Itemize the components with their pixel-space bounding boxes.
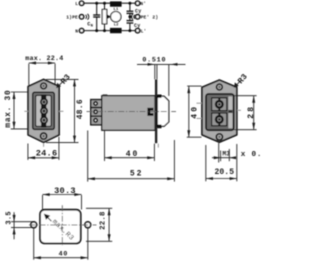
- svg-text:28: 28: [247, 105, 256, 119]
- svg-text:40: 40: [59, 250, 69, 257]
- svg-text:PE' 2): PE' 2): [141, 15, 159, 21]
- svg-text:max. 22.4: max. 22.4: [25, 55, 63, 63]
- svg-text:L': L': [141, 28, 147, 34]
- svg-text:48.6: 48.6: [77, 99, 85, 119]
- svg-text:20.5: 20.5: [215, 168, 235, 177]
- svg-text:Cy: Cy: [134, 23, 140, 29]
- svg-text:max. 30: max. 30: [5, 90, 13, 128]
- svg-text:3.5: 3.5: [5, 211, 13, 225]
- svg-text:x 0.: x 0.: [241, 151, 262, 159]
- svg-text:30.3: 30.3: [54, 186, 76, 196]
- svg-text:40: 40: [191, 105, 200, 119]
- svg-text:52: 52: [130, 169, 143, 178]
- svg-text:Cy: Cy: [135, 9, 141, 15]
- svg-text:24.6: 24.6: [36, 149, 58, 159]
- svg-text:L: L: [75, 1, 78, 7]
- svg-text:M3: M3: [222, 151, 230, 158]
- svg-text:L1: L1: [114, 8, 119, 12]
- svg-text:L2: L2: [114, 23, 119, 27]
- svg-text:1)PE: 1)PE: [66, 15, 78, 21]
- svg-text:0.510: 0.510: [142, 56, 166, 64]
- svg-text:N: N: [75, 28, 78, 34]
- svg-text:22.8: 22.8: [100, 211, 108, 230]
- svg-text:40: 40: [126, 150, 139, 159]
- svg-text:N': N': [140, 1, 146, 7]
